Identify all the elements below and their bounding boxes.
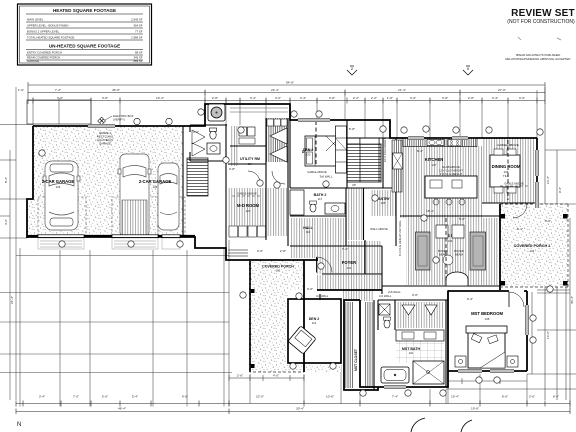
svg-text:UP: UP [352, 183, 356, 187]
svg-text:3x6 WALL: 3x6 WALL [320, 175, 333, 179]
window den1 top [298, 118, 330, 122]
garage door openings [38, 235, 180, 238]
svg-text:21'-4": 21'-4" [10, 296, 14, 304]
svg-text:889 SF: 889 SF [133, 59, 142, 63]
porch1 door swing [513, 204, 527, 218]
svg-text:101: 101 [347, 266, 352, 270]
svg-text:FOYER: FOYER [342, 260, 356, 265]
porch dashed edges [250, 260, 304, 372]
right margin dim verticals [446, 87, 576, 409]
svg-text:UTILITY RM: UTILITY RM [240, 157, 260, 161]
living armchair 2 [452, 225, 464, 238]
shower [413, 361, 444, 384]
svg-text:4'-0": 4'-0" [193, 130, 199, 134]
window dining east [535, 150, 539, 176]
svg-text:8'-0": 8'-0" [502, 395, 508, 399]
svg-text:BEAM: BEAM [455, 253, 464, 257]
svg-text:3-0 WALL: 3-0 WALL [379, 294, 392, 298]
driveway grid horizontals [0, 256, 232, 373]
svg-text:3'-8": 3'-8" [442, 96, 448, 100]
fireplace [446, 272, 468, 286]
powder toilet [210, 128, 217, 139]
svg-text:7'-4": 7'-4" [55, 88, 61, 92]
bump closet shelves [230, 108, 288, 112]
electric box note [100, 119, 104, 123]
living gable dashed [445, 218, 447, 283]
svg-text:88 SF: 88 SF [135, 51, 143, 55]
entry door swing [317, 257, 333, 273]
svg-text:30'-4": 30'-4" [296, 407, 304, 411]
main exterior walls [27, 104, 537, 390]
water heater [211, 107, 222, 118]
water heater closet [208, 104, 225, 121]
top dimension chain line 1 [28, 82, 545, 104]
svg-text:21'-4": 21'-4" [398, 88, 406, 92]
garage apron left dashed [38, 197, 86, 235]
svg-text:22'-0": 22'-0" [256, 395, 264, 399]
svg-text:COVERED PORCH 1: COVERED PORCH 1 [514, 244, 551, 248]
roof outline top-left [27, 100, 91, 124]
svg-text:RELATIONSHIPS/DESIGN APPROVAL: RELATIONSHIPS/DESIGN APPROVAL ACCEPTED [506, 57, 571, 61]
garage apron right dashed [158, 197, 185, 235]
svg-text:10'-4": 10'-4" [156, 96, 164, 100]
svg-text:7'-4": 7'-4" [342, 247, 348, 251]
den2 armchair [288, 326, 316, 354]
svg-text:5'-8": 5'-8" [349, 127, 355, 131]
pantry floor hatch [370, 190, 396, 216]
svg-text:3'-6": 3'-6" [529, 395, 535, 399]
driveway grid verticals [20, 240, 229, 407]
living sofa 2 [470, 232, 486, 270]
svg-text:14'-0": 14'-0" [546, 331, 550, 339]
svg-text:GARAGE: GARAGE [27, 59, 39, 63]
svg-text:7'-6": 7'-6" [57, 96, 63, 100]
corridor strip hatch [347, 188, 363, 240]
kitchen top counter [403, 139, 477, 147]
hall to master hatch [342, 290, 374, 301]
stairs treads [347, 144, 381, 182]
stamp small marks [518, 37, 561, 40]
bench cubby hatch [266, 118, 288, 162]
svg-text:9'-0 CLG HEIGHT 2x6 WALL: 9'-0 CLG HEIGHT 2x6 WALL [398, 220, 402, 256]
truck bed stripes [122, 200, 147, 235]
bath2 tub [290, 190, 304, 215]
svg-text:4'-0": 4'-0" [273, 374, 279, 378]
foyer floor hatch [317, 241, 382, 274]
hall floor hatch [290, 218, 347, 246]
svg-text:3'-4": 3'-4" [39, 395, 45, 399]
svg-text:19'-8": 19'-8" [471, 407, 479, 411]
revision cloud arc bottom [411, 418, 425, 432]
svg-text:116: 116 [306, 230, 311, 234]
window dining east 2 [535, 182, 539, 208]
svg-text:2'-8": 2'-8" [280, 249, 286, 253]
den1 wardrobe [336, 126, 347, 173]
svg-text:2'-2": 2'-2" [353, 96, 359, 100]
truck cab [118, 154, 151, 237]
svg-text:2'-8": 2'-8" [468, 96, 474, 100]
svg-text:WALL ABOVE: WALL ABOVE [370, 227, 388, 231]
svg-text:3'-8": 3'-8" [102, 96, 108, 100]
top extension verticals [33, 90, 537, 138]
svg-text:BONUS 2 UPPER LEVEL: BONUS 2 UPPER LEVEL [27, 30, 60, 34]
svg-text:110: 110 [409, 351, 414, 355]
dining table [490, 155, 520, 187]
svg-text:N: N [17, 422, 21, 428]
svg-text:9'-8": 9'-8" [182, 395, 188, 399]
den2 floor white [286, 297, 343, 365]
bottom extension drops [250, 365, 527, 404]
svg-text:105: 105 [381, 201, 386, 205]
svg-text:2x6 WALL: 2x6 WALL [388, 290, 401, 294]
svg-text:MST BEDROOM: MST BEDROOM [471, 311, 503, 316]
nightstand right [507, 356, 518, 367]
svg-text:5'-4": 5'-4" [517, 227, 523, 231]
roof slope marker 2 [347, 66, 357, 75]
svg-text:DEN 1: DEN 1 [303, 148, 314, 152]
den1 gable dashed [315, 121, 317, 164]
mst closet2 hatch band [396, 302, 444, 328]
garage stipple floor [27, 126, 183, 236]
garage stair [187, 158, 208, 196]
bath2 toilet [310, 204, 316, 212]
svg-text:(NOT FOR CONSTRUCTION): (NOT FOR CONSTRUCTION) [507, 19, 575, 25]
gable above dashed dining [500, 185, 528, 187]
svg-text:3'-0": 3'-0" [307, 287, 313, 291]
svg-text:9'-4": 9'-4" [558, 187, 562, 193]
svg-text:7'-4": 7'-4" [392, 395, 398, 399]
mst wc toilet [384, 320, 390, 328]
master door swing [509, 292, 524, 307]
rear covered porch stipple [500, 204, 568, 287]
tub [381, 367, 409, 383]
svg-text:6'-4": 6'-4" [417, 149, 423, 153]
svg-text:46'-8": 46'-8" [112, 88, 120, 92]
svg-text:16'-0 CLG HEIGHT: 16'-0 CLG HEIGHT [383, 138, 387, 162]
svg-text:GABLE ABOVE: GABLE ABOVE [504, 182, 524, 186]
car 1 [43, 161, 80, 230]
mst bed [468, 330, 505, 368]
svg-text:24'-4": 24'-4" [271, 88, 279, 92]
svg-text:3'-4": 3'-4" [300, 96, 306, 100]
svg-text:MAIN LEVEL: MAIN LEVEL [27, 18, 44, 22]
svg-text:8'-4": 8'-4" [553, 395, 559, 399]
mud door arc [272, 171, 285, 184]
svg-text:102: 102 [276, 269, 281, 273]
svg-text:M-D ROOM: M-D ROOM [237, 203, 260, 208]
svg-text:3'-4": 3'-4" [492, 96, 498, 100]
svg-text:9'-0 CLG HEIGHT: 9'-0 CLG HEIGHT [440, 172, 463, 176]
svg-text:103: 103 [448, 239, 453, 243]
living room floor hatch [406, 218, 498, 285]
svg-text:GARAGE: GARAGE [99, 142, 111, 146]
svg-text:27'-0": 27'-0" [498, 88, 506, 92]
window kitchen top 1 [408, 136, 424, 140]
svg-text:2,986 SF: 2,986 SF [131, 36, 143, 40]
svg-text:3'-8": 3'-8" [329, 96, 335, 100]
dining floor hatch [482, 138, 535, 203]
svg-text:(VERIFY): (VERIFY) [113, 118, 125, 122]
bench top cubbies [267, 119, 287, 126]
living round table [443, 255, 453, 265]
svg-text:48'-4": 48'-4" [118, 407, 126, 411]
mud room floor hatch [228, 188, 288, 236]
svg-text:5'-0": 5'-0" [102, 395, 108, 399]
svg-text:GABLE ABOVE: GABLE ABOVE [497, 143, 519, 147]
svg-text:3'-4": 3'-4" [250, 96, 256, 100]
bath2 vanity [325, 203, 345, 214]
svg-text:10'-8": 10'-8" [326, 395, 334, 399]
svg-text:9'-4": 9'-4" [467, 297, 473, 301]
svg-text:10'-4": 10'-4" [546, 176, 550, 184]
svg-text:REVIEW SET: REVIEW SET [511, 8, 575, 19]
svg-text:TOTAL HEATED SQUARE FOOTAGE: TOTAL HEATED SQUARE FOOTAGE [27, 36, 75, 40]
powder door swings [192, 130, 205, 156]
svg-text:2'-8": 2'-8" [212, 96, 218, 100]
window garage top [88, 124, 115, 128]
living armchair 1 [436, 225, 448, 238]
svg-text:104: 104 [530, 249, 535, 253]
svg-text:2,545 SF: 2,545 SF [131, 18, 143, 22]
island stools [433, 199, 439, 205]
kitchen cabinet band [392, 140, 402, 192]
garage apron middle dashed [112, 197, 158, 235]
svg-text:77 SF: 77 SF [135, 30, 143, 34]
svg-text:GABLE ABOVE: GABLE ABOVE [237, 192, 257, 196]
svg-text:2'-6": 2'-6" [237, 374, 243, 378]
nightstand left [455, 356, 466, 367]
powder vanity [207, 143, 220, 154]
svg-text:123: 123 [246, 209, 251, 213]
svg-text:5'-0": 5'-0" [459, 217, 465, 221]
svg-text:3'-0": 3'-0" [545, 219, 551, 223]
svg-text:120: 120 [306, 153, 311, 157]
linen closet X [379, 304, 390, 315]
svg-text:KITCHEN: KITCHEN [425, 157, 444, 162]
square footage table border [18, 4, 152, 65]
window mst bath south [384, 385, 406, 389]
svg-text:4'-0": 4'-0" [4, 219, 8, 225]
svg-text:16'-4": 16'-4" [426, 209, 434, 213]
svg-text:1'-8": 1'-8" [387, 96, 393, 100]
roof slope marker 0 [463, 66, 473, 75]
window mst bedroom south [458, 369, 482, 373]
window mst bedroom east [525, 305, 529, 335]
top dimension chain line 3 [28, 98, 545, 104]
svg-text:2-CAR GARAGE: 2-CAR GARAGE [139, 179, 172, 184]
svg-text:3'-0": 3'-0" [412, 293, 418, 297]
dining gable dashed [507, 140, 509, 200]
svg-text:4'-0": 4'-0" [257, 249, 263, 253]
svg-text:2-CAR GARAGE: 2-CAR GARAGE [42, 179, 75, 184]
svg-text:125: 125 [153, 185, 158, 189]
mst closet hatch [345, 302, 354, 388]
svg-text:UN-HEATED SQUARE FOOTAGE: UN-HEATED SQUARE FOOTAGE [49, 44, 120, 49]
utility door arc [248, 171, 260, 183]
interior walls [183, 118, 537, 390]
svg-text:30'-4": 30'-4" [570, 296, 574, 304]
bottom sub dim ticks porch [229, 375, 304, 381]
entry steps [228, 250, 248, 256]
entry covered porch stipple [250, 260, 341, 372]
svg-text:MST CLOSET: MST CLOSET [354, 348, 358, 371]
svg-text:19'-4": 19'-4" [451, 395, 459, 399]
mst closet triangles [402, 305, 437, 315]
living sofa 1 [416, 232, 431, 270]
den2 walls [288, 299, 341, 363]
svg-text:UPPER LEVEL - BONUS FINISH: UPPER LEVEL - BONUS FINISH [27, 24, 68, 28]
bottom dim line 1 [16, 401, 570, 407]
window mst bedroom south 2 [490, 369, 514, 373]
svg-text:8'-4": 8'-4" [4, 177, 8, 183]
svg-text:94'-8": 94'-8" [286, 81, 294, 85]
svg-text:3'-0": 3'-0" [275, 96, 281, 100]
svg-text:113: 113 [312, 321, 317, 325]
porch posts [251, 289, 255, 293]
svg-text:3-0 WALL: 3-0 WALL [316, 294, 329, 298]
svg-text:1'-6": 1'-6" [18, 88, 24, 92]
svg-text:5'-4": 5'-4" [132, 395, 138, 399]
car 3 [158, 163, 179, 230]
left margin extension lines [0, 87, 33, 400]
interior dims sprinkle [193, 127, 551, 301]
svg-text:2'-2": 2'-2" [371, 96, 377, 100]
kitchen floor hatch [400, 146, 482, 218]
keynote circles [39, 109, 553, 396]
svg-text:DINING ROOM: DINING ROOM [492, 164, 521, 169]
top dimension chain line 2 [28, 90, 545, 96]
svg-text:HEATED SQUARE FOOTAGE: HEATED SQUARE FOOTAGE [53, 8, 116, 13]
mst bath tile floor [396, 341, 444, 363]
svg-text:ENTRY COVERED PORCH: ENTRY COVERED PORCH [27, 51, 62, 55]
svg-text:108: 108 [485, 317, 490, 321]
mst vanity [396, 330, 444, 341]
svg-text:124: 124 [248, 162, 253, 166]
svg-text:GABLE ABOVE: GABLE ABOVE [307, 170, 327, 174]
den1 bed [305, 136, 337, 166]
svg-text:364 SF: 364 SF [133, 24, 142, 28]
gable above dashed mud [232, 195, 262, 197]
svg-text:126: 126 [56, 185, 61, 189]
svg-text:117: 117 [318, 197, 323, 201]
mud cubby boxes [229, 226, 266, 237]
front stoop hatch [317, 275, 382, 290]
svg-text:2'-8": 2'-8" [229, 167, 235, 171]
svg-text:7'-0": 7'-0" [73, 395, 79, 399]
svg-text:107: 107 [432, 163, 437, 167]
kitchen island [425, 176, 477, 198]
utility washer dryer [239, 127, 247, 136]
bench bifold triangles [270, 128, 287, 162]
svg-text:4'-0": 4'-0" [410, 96, 416, 100]
svg-text:3'-6": 3'-6" [519, 96, 525, 100]
window kitchen top 2 [452, 136, 468, 140]
